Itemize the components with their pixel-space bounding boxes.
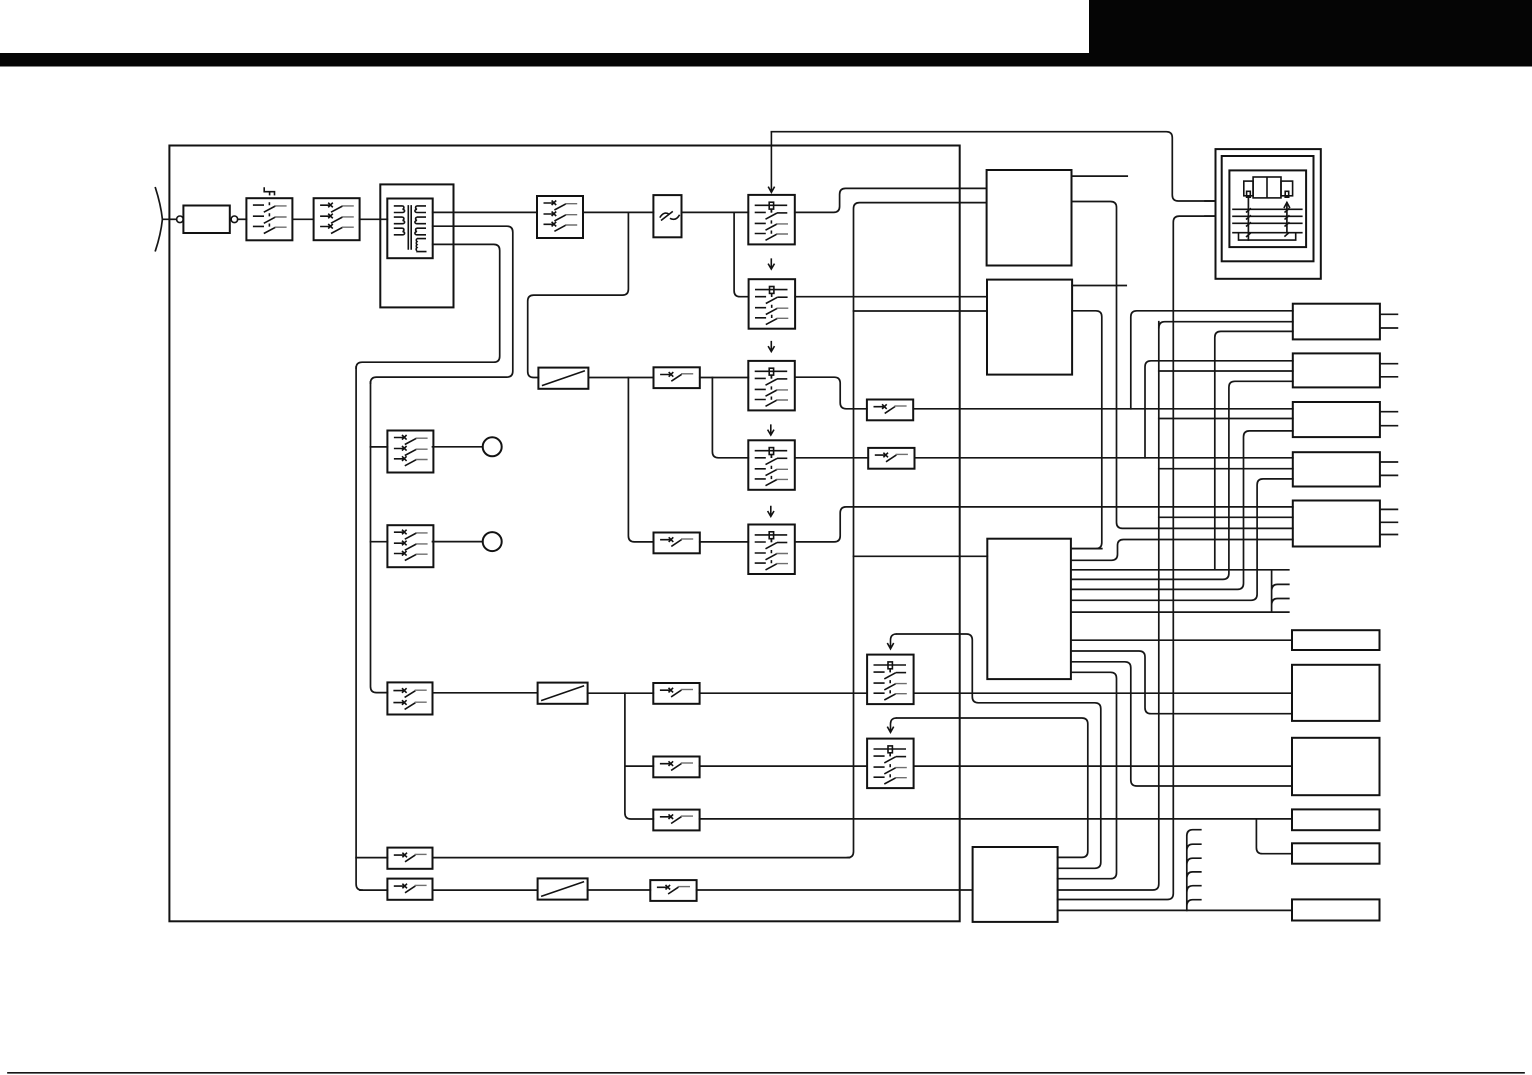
cabinet R1	[1293, 304, 1380, 340]
storage unit outer box	[1216, 149, 1321, 279]
wire: SW8 to rectifier RC2	[433, 692, 538, 694]
box B lower output riser	[1071, 311, 1102, 549]
breaker BK6	[653, 757, 699, 778]
box D output row to R11	[1058, 909, 1292, 911]
wire: C2 output to box B	[795, 296, 987, 298]
riser V1 (aux feeder left)	[356, 367, 362, 890]
cabinet feed riser to R1	[1131, 311, 1293, 409]
wire: converter to contactor C1	[682, 211, 749, 213]
feeder row: BK7 to cabinet R9	[700, 818, 1292, 820]
wire: transformer HV output to S3	[433, 211, 537, 213]
box C output 1	[1071, 548, 1102, 550]
controller box C	[987, 539, 1071, 679]
R3 right stubs	[1380, 412, 1398, 426]
feeder row: C6 to cabinet R7	[914, 692, 1292, 694]
storage unit electrode right	[1284, 202, 1290, 232]
storage unit electrode left	[1247, 197, 1249, 240]
storage unit bus	[1058, 216, 1216, 899]
wire: BK8 to box D	[697, 889, 973, 891]
tap to auxiliary rectifier	[528, 212, 629, 377]
wire: V2 to SW5	[371, 541, 388, 543]
tap down to contactor C4	[712, 378, 748, 458]
R4 right stubs	[1380, 462, 1398, 475]
arrow C2 to C3	[768, 341, 774, 352]
wire: rotor to coupling	[169, 218, 176, 220]
trip symbol above S1	[264, 187, 274, 195]
R2 right stubs	[1380, 364, 1398, 377]
wire: S2 to transformer	[360, 218, 388, 220]
storage unit plate lines	[1232, 209, 1302, 232]
controller box B	[987, 280, 1072, 375]
contactor C3	[748, 361, 795, 411]
bus branch row to R3	[1159, 418, 1293, 420]
bus branch row to R2	[1159, 370, 1293, 372]
box C output 3 to R1	[1071, 331, 1293, 569]
breaker BK5	[653, 683, 699, 704]
box A output to cabinet R5	[1072, 202, 1293, 529]
storage unit middle box	[1222, 156, 1314, 261]
box C output 5 to R3	[1071, 431, 1293, 590]
cabinet R3	[1293, 402, 1380, 437]
box C output 4 to R2	[1071, 381, 1293, 579]
wire: V1 to SW7	[360, 889, 387, 891]
feeder row: BK3 to cabinet R3	[914, 408, 1293, 410]
feeder row: BK2 to cabinet R4	[915, 457, 1293, 459]
transformer T1 outer enclosure	[380, 184, 453, 307]
controller box A	[987, 170, 1072, 266]
transformer T1 winding box	[387, 199, 432, 259]
footer rule	[8, 1072, 1524, 1074]
motor circle M1	[483, 437, 502, 456]
header block top-right	[1089, 0, 1532, 67]
DC riser taps to BK6 and BK7	[625, 693, 653, 819]
tap down to breaker BK4 row	[628, 378, 653, 542]
wire: C4 output to breaker BK2	[795, 457, 868, 459]
rectifier RC2	[538, 683, 588, 704]
gearbox	[183, 206, 229, 234]
frequency converter FC	[653, 195, 681, 237]
controller box D	[973, 847, 1058, 922]
terminal comb 2	[1187, 830, 1201, 911]
wire: S1 to S2	[292, 218, 313, 220]
cabinet R10	[1292, 843, 1380, 863]
wire: BK4 to contactor C5	[700, 541, 749, 543]
breaker BK4	[654, 533, 700, 554]
control wire into C6 arrow	[887, 634, 1101, 868]
switch S3 (3-pole fused)	[537, 196, 583, 238]
wire: C1 output to box A	[795, 188, 987, 212]
cabinet R2	[1293, 353, 1380, 387]
tap to contactor C2	[734, 212, 749, 296]
arrow C3 to C4	[768, 424, 774, 435]
R1 right stubs	[1380, 314, 1398, 328]
box C output 6 to R4	[1071, 479, 1293, 600]
storage unit inner box	[1229, 170, 1306, 247]
switch S1 (3-pole with trip linkage)	[246, 198, 292, 240]
contactor C5	[748, 525, 795, 575]
cabinet R11	[1292, 899, 1380, 920]
cabinet R9	[1292, 809, 1380, 830]
breaker BK1	[654, 367, 700, 388]
contactor C7	[867, 739, 914, 789]
wire: top feedback to storage unit	[771, 132, 1215, 201]
switch SW7 (1-pole)	[387, 879, 432, 900]
wire: RC3 to breaker BK8	[588, 889, 651, 891]
coupling circle 2	[231, 216, 238, 223]
storage unit stub wires	[1205, 201, 1216, 216]
storage unit bottom loop	[1239, 233, 1296, 240]
breaker BK3	[867, 400, 913, 421]
wire: rectifier to breaker BK1	[588, 377, 653, 379]
box C lower output to R6	[1071, 639, 1292, 641]
frame: turbine enclosure	[169, 146, 959, 922]
terminal comb 1	[1272, 570, 1289, 612]
switch SW6 (1-pole)	[387, 848, 432, 869]
measurement bus riser	[1058, 322, 1159, 890]
breaker BK2	[868, 448, 914, 469]
wire: bus branch to box B	[854, 310, 988, 312]
wire: BK1 to contactor C3	[700, 377, 749, 379]
wire: SW4 to motor M1	[433, 446, 483, 448]
box C lower output to R8	[1071, 662, 1292, 786]
switch SW4 (3-pole)	[387, 431, 433, 473]
wire: BK5 to contactor C6	[700, 692, 868, 694]
box B stub output	[1072, 285, 1126, 287]
control wire into C7 arrow	[887, 718, 1088, 857]
rectifier RC1	[538, 368, 588, 389]
breaker BK7	[653, 810, 699, 831]
feeder row: C5 to cabinet R5	[795, 507, 1293, 542]
box C output 7 comb row	[1071, 611, 1289, 613]
wire: V2 to SW4	[371, 446, 388, 448]
arrow C1 to C2	[768, 258, 774, 269]
box C lower output to R7	[1071, 651, 1292, 714]
wire: transformer output 3 jog down	[356, 244, 500, 368]
arrow C4 to C5	[768, 506, 774, 517]
wire: RC2 to breaker BK5	[588, 692, 654, 694]
cabinet R7	[1292, 665, 1380, 721]
coupling circle 1	[177, 216, 184, 223]
box A stub output	[1072, 175, 1128, 177]
contactor C2	[749, 279, 796, 329]
control bus vertical (monitoring)	[848, 203, 987, 858]
cabinet R4	[1293, 452, 1380, 486]
contactor C6	[867, 655, 914, 705]
storage unit tick marks	[1246, 208, 1290, 237]
wind turbine rotor	[155, 188, 169, 251]
riser V2 (aux feeder right)	[371, 382, 388, 693]
header bar	[0, 53, 1532, 67]
box C lower output to box D	[1058, 672, 1117, 878]
box C output 2 to R5	[1071, 540, 1293, 561]
cabinet R8	[1292, 738, 1380, 795]
wire: SW7 to rectifier RC3	[433, 889, 538, 891]
arrow into C1	[768, 132, 774, 193]
wire: SW5 to motor M2	[433, 541, 483, 543]
feeder row: C7 to cabinet R8	[914, 765, 1292, 767]
contactor C1	[748, 195, 795, 245]
wire: SW6 row to control bus	[356, 857, 849, 859]
R5 right stubs	[1380, 509, 1398, 534]
drop to cabinet R10	[1256, 819, 1292, 854]
bus branch row to R4	[1159, 468, 1293, 470]
contactor C4	[748, 440, 795, 490]
breaker BK8	[650, 880, 696, 901]
rectifier RC3	[538, 878, 588, 899]
wire: C3 output to breaker BK3	[795, 377, 867, 409]
storage cell assembly	[1244, 177, 1293, 198]
wire: S3 to converter	[583, 211, 653, 213]
cabinet R5	[1293, 501, 1380, 547]
switch S2 (3-pole fused)	[314, 198, 360, 240]
bus branch row to R1	[1159, 322, 1293, 328]
wire: coupling to main switch S1	[238, 218, 247, 220]
wire: bus branch to box C	[854, 555, 988, 557]
bus branch row to R5	[1159, 516, 1293, 518]
wire: transformer output 2 jog down	[371, 226, 513, 383]
motor circle M2	[483, 532, 502, 551]
riser to R2 feeder row	[1145, 361, 1293, 458]
wire: BK6 to contactor C7	[700, 765, 868, 767]
switch SW5 (3-pole)	[387, 525, 433, 567]
switch SW8 (2-pole)	[387, 682, 432, 714]
cabinet R6	[1292, 630, 1380, 650]
